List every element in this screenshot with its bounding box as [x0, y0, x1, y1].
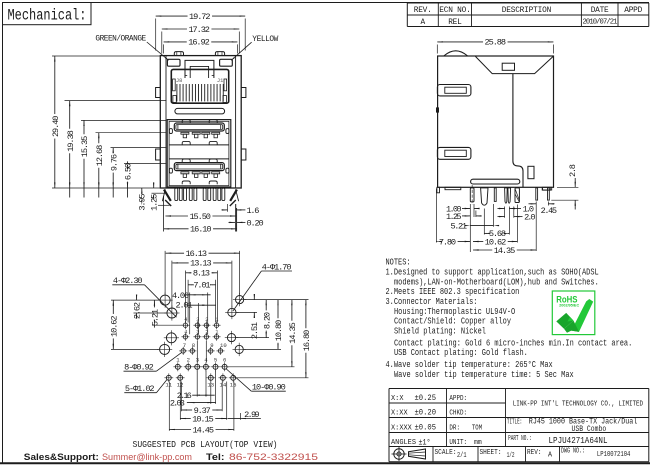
svg-text:14: 14	[220, 382, 227, 389]
svg-text:5: 5	[214, 356, 217, 363]
side view front step line	[513, 74, 523, 188]
svg-text:10: 10	[220, 342, 227, 349]
USB port 1 upper latch bumps	[182, 141, 190, 144]
revision table frame	[406, 3, 408, 27]
svg-text:1.Designed to support applicat: 1.Designed to support application,such a…	[386, 267, 599, 277]
front view body outline	[160, 56, 241, 188]
dimension 2.62	[136, 295, 138, 301]
svg-text:8-Φ0.92: 8-Φ0.92	[124, 362, 154, 372]
dimension 8.20	[265, 300, 267, 311]
PCB left extension lines	[111, 299, 160, 301]
svg-text:14.35: 14.35	[494, 246, 516, 256]
front view top mounting tab right	[215, 52, 224, 56]
svg-text:4.Wave solder tip temperature:: 4.Wave solder tip temperature: 265°C Max	[386, 360, 553, 370]
title block column lines	[446, 389, 448, 447]
svg-text:X:XXX: X:XXX	[391, 424, 412, 432]
revision table column lines	[437, 3, 439, 27]
svg-text:LP10072104: LP10072104	[597, 451, 631, 459]
svg-text:ANGLES: ANGLES	[391, 439, 417, 447]
svg-text:2: 2	[187, 356, 190, 363]
svg-text:Tel:: Tel:	[206, 452, 225, 463]
PCB hole 2.30 bottom-left	[160, 344, 170, 354]
svg-text:modems),LAN-on-Motherboard(LOM: modems),LAN-on-Motherboard(LOM),hub and …	[394, 277, 599, 287]
svg-text:J1: J1	[217, 78, 223, 84]
front view bottom contact pins	[175, 188, 178, 201]
svg-text:10.80: 10.80	[274, 320, 284, 342]
svg-text:12.68: 12.68	[95, 145, 105, 167]
svg-text:SHEET:: SHEET:	[480, 449, 502, 457]
USB port 1 upper contacts	[181, 132, 189, 134]
svg-text:Summer@link-pp.com: Summer@link-pp.com	[102, 452, 192, 463]
svg-text:4.06: 4.06	[172, 291, 189, 301]
dimension 16.13	[166, 252, 184, 254]
side view pins	[470, 188, 474, 202]
dimension 2.51	[253, 295, 255, 300]
svg-text:2.99: 2.99	[244, 410, 260, 420]
dimension 3.95	[158, 204, 170, 206]
svg-text:15.35: 15.35	[80, 136, 90, 158]
dimension 12.68	[98, 133, 100, 144]
PCB hole 1.70 inner-right-lower	[227, 334, 235, 342]
dimension 8.13	[186, 272, 192, 274]
svg-text:0.20: 0.20	[247, 218, 264, 228]
title block frame	[389, 388, 649, 390]
svg-text:1.6: 1.6	[247, 206, 260, 216]
USB port 2 lower latch bumps	[182, 181, 190, 184]
svg-text:TITLE:: TITLE:	[507, 418, 522, 426]
svg-text:2.Meets IEEE 802.3 specificati: 2.Meets IEEE 802.3 specification	[386, 287, 520, 297]
svg-text:86-752-3322915: 86-752-3322915	[229, 452, 318, 463]
RJ45 contact comb	[176, 84, 178, 101]
USB port 2 lower contacts	[181, 172, 189, 174]
svg-text:16.80: 16.80	[302, 330, 312, 352]
USB port 1 upper side clips	[169, 129, 172, 134]
side view bottom slot bar	[471, 179, 520, 184]
svg-text:PART NO.:: PART NO.:	[508, 435, 531, 443]
USB port 1 upper top tabs	[182, 120, 190, 123]
dimension 0.20	[229, 222, 235, 223]
title block bottom row columns	[432, 447, 434, 462]
svg-text:Mechanical:: Mechanical:	[8, 7, 87, 25]
side bottom extension lines	[469, 204, 471, 252]
svg-text:7: 7	[183, 342, 186, 349]
PCB RJ45 pin holes row 1	[183, 323, 187, 327]
svg-text:REL: REL	[448, 19, 462, 27]
dimension 19.38	[69, 101, 71, 129]
svg-text:17.32: 17.32	[188, 25, 210, 35]
dimension 25.88	[436, 45, 438, 54]
svg-text:REV:: REV:	[527, 449, 542, 457]
extension lines left of front view	[52, 55, 160, 57]
svg-text:13.13: 13.13	[190, 259, 212, 269]
svg-text:USB Combo: USB Combo	[572, 425, 607, 434]
svg-text:14.35: 14.35	[288, 322, 298, 344]
svg-text:3.Connector Materials:: 3.Connector Materials:	[386, 297, 478, 307]
svg-text:2.0: 2.0	[524, 213, 536, 223]
svg-text:APPD:: APPD:	[449, 395, 467, 403]
svg-text:LPJU4271A64NL: LPJU4271A64NL	[549, 435, 608, 446]
dimension 5.21	[153, 300, 155, 307]
side view latch window upper	[437, 85, 471, 96]
svg-text:6: 6	[223, 356, 226, 363]
PCB right extension lines	[244, 299, 308, 301]
svg-text:DATE: DATE	[591, 7, 609, 15]
svg-text:29.40: 29.40	[51, 116, 61, 138]
side view latch window lower	[437, 147, 471, 159]
USB divider lines	[169, 144, 229, 146]
front view top mounting tab left	[174, 52, 183, 56]
svg-text:10.62: 10.62	[109, 315, 119, 337]
LED window yellow	[220, 59, 233, 66]
PCB shield holes 7-10 row	[181, 349, 185, 353]
svg-text:25.88: 25.88	[485, 38, 507, 48]
page bottom rule	[0, 462, 650, 464]
svg-text:DWG NO.:: DWG NO.:	[561, 447, 585, 455]
svg-text:15: 15	[230, 382, 237, 389]
title box Mechanical	[3, 3, 92, 25]
PCB bottom extension lines	[196, 371, 198, 397]
dimension 5.21	[465, 225, 471, 226]
svg-text:7.01: 7.01	[193, 281, 210, 291]
dimension 14.35	[473, 249, 492, 251]
svg-text:2.51: 2.51	[250, 322, 260, 339]
svg-text:16.92: 16.92	[188, 38, 210, 48]
svg-text:Contact plating: Gold 6 micro-: Contact plating: Gold 6 micro-inches min…	[394, 338, 632, 348]
dimension 9.76	[112, 148, 114, 153]
svg-text:Shield plating: Nickel: Shield plating: Nickel	[394, 327, 486, 337]
dimension 16.80	[305, 300, 307, 329]
dimension 15.50	[165, 215, 188, 217]
side view edge mark	[436, 108, 438, 112]
RJ45 jack opening	[171, 69, 228, 103]
side view mid hole	[528, 166, 534, 178]
svg-text:2002/95/EC: 2002/95/EC	[559, 304, 580, 308]
svg-text:14.45: 14.45	[193, 425, 215, 435]
dimension 1.6	[222, 209, 228, 210]
svg-text:SUGGESTED PCB LAYOUT(TOP VIEW): SUGGESTED PCB LAYOUT(TOP VIEW)	[133, 439, 278, 450]
dimension 17.32	[161, 32, 163, 54]
svg-text:6.50: 6.50	[124, 163, 134, 180]
svg-text:1.25: 1.25	[446, 212, 462, 222]
side view body outline	[438, 56, 554, 187]
dimension 2.99	[222, 418, 228, 419]
svg-text:CHKD:: CHKD:	[449, 409, 467, 417]
side view top chamfer recess	[475, 56, 553, 73]
USB port 2 lower top tabs	[182, 159, 190, 162]
dimension 14.35 pcb	[291, 300, 293, 321]
svg-text:8.20: 8.20	[262, 312, 272, 329]
PCB USB pin holes 1-6 row	[175, 364, 180, 369]
PCB hole 2.30 inner-left-upper	[167, 308, 177, 318]
PCB RJ45 pin holes row 2	[183, 335, 187, 339]
PCB USB pin holes 11-15 row	[166, 375, 171, 380]
RJ45 bottom corner steps	[173, 96, 176, 103]
svg-text:±0.20: ±0.20	[415, 409, 437, 418]
svg-text:10.15: 10.15	[192, 414, 214, 424]
dimension 1.25	[152, 192, 166, 194]
svg-text:REV.: REV.	[414, 7, 432, 15]
third angle projection symbol	[394, 449, 404, 459]
svg-text:DR:: DR:	[449, 424, 460, 432]
svg-text:8.13: 8.13	[193, 269, 210, 279]
RJ45 key tab	[185, 60, 214, 78]
side view top hole	[502, 63, 514, 70]
dimension 5.68	[484, 232, 487, 234]
RJ45 inner side slots	[173, 79, 176, 91]
svg-text:UNIT:: UNIT:	[449, 439, 467, 447]
svg-text:Contact/Shield: Copper alloy: Contact/Shield: Copper alloy	[394, 317, 511, 327]
svg-text:16.13: 16.13	[186, 249, 208, 259]
dimension 10.80	[277, 300, 279, 319]
svg-text:Sales&Support:: Sales&Support:	[24, 452, 99, 463]
dimension 1.25	[465, 215, 471, 216]
svg-text:LINK-PP INT'L TECHNOLOGY CO.,: LINK-PP INT'L TECHNOLOGY CO., LIMITED	[513, 401, 644, 409]
dimension 1.0	[499, 208, 505, 209]
dimension 16.92	[163, 44, 165, 53]
side view bottom feet	[445, 187, 461, 189]
svg-text:GREEN/ORANGE: GREEN/ORANGE	[95, 36, 146, 44]
vent slot oval	[175, 108, 225, 114]
svg-text:A: A	[421, 19, 426, 27]
svg-text:9: 9	[210, 342, 213, 349]
dimension 2.45	[531, 203, 537, 204]
svg-text:APPD: APPD	[624, 7, 642, 15]
svg-text:Housing:Thermoplastic UL94V-O: Housing:Thermoplastic UL94V-O	[394, 307, 515, 317]
PCB hole 1.70 top-right	[236, 296, 244, 304]
svg-text:ECN NO.: ECN NO.	[439, 7, 471, 15]
dimension 29.40	[54, 56, 56, 114]
svg-text:mm: mm	[474, 439, 482, 447]
svg-text:2010/07/21: 2010/07/21	[583, 19, 618, 27]
svg-text:X:XX: X:XX	[391, 409, 408, 417]
svg-text:DESCRIPTION: DESCRIPTION	[502, 7, 552, 15]
dimension 10.62	[112, 300, 114, 314]
USB port 2 lower side clips	[169, 168, 172, 173]
svg-text:19.38: 19.38	[66, 130, 76, 152]
svg-text:7.80: 7.80	[439, 237, 456, 247]
svg-text:TOM: TOM	[472, 424, 482, 432]
page left border	[2, 3, 4, 464]
svg-text:X:X: X:X	[391, 395, 404, 403]
PCB hole 2.30 inner-left-lower	[166, 333, 176, 343]
dimension 2.8 vertical	[557, 186, 578, 188]
svg-text:9.76: 9.76	[109, 154, 119, 171]
svg-text:19.72: 19.72	[189, 12, 211, 22]
dimension 13.13	[172, 262, 188, 264]
USB block outline	[167, 120, 231, 187]
front bottom extension lines	[163, 196, 165, 232]
svg-text:2.8: 2.8	[568, 164, 578, 177]
PCB top extension lines	[164, 251, 166, 295]
svg-text:2.03: 2.03	[170, 398, 185, 408]
dimension 16.10	[164, 228, 189, 230]
svg-text:A: A	[548, 452, 553, 460]
svg-text:2.45: 2.45	[541, 206, 558, 216]
svg-text:±0.05: ±0.05	[415, 424, 437, 433]
USB port 2 lower shell opening	[174, 163, 224, 171]
dimension 7.80 and 10.62	[436, 241, 437, 243]
dimension 15.35	[83, 120, 85, 134]
svg-text:8: 8	[192, 342, 195, 349]
RoHS logo box	[552, 291, 595, 335]
svg-text:10-Φ0.90: 10-Φ0.90	[252, 382, 286, 392]
svg-text:SCALE:: SCALE:	[435, 449, 457, 457]
svg-text:Wave solder tip temperature ti: Wave solder tip temperature time: 5 Sec …	[394, 370, 574, 380]
dimension 14.45	[169, 429, 191, 431]
PCB hole 1.70 inner-right-upper	[228, 308, 236, 316]
page top border	[2, 2, 649, 4]
PCB hole 1.70 bottom-right	[235, 345, 243, 353]
front shield leg right	[236, 189, 239, 201]
dimension 9.37	[181, 409, 192, 411]
USB port 1 upper shell opening	[174, 123, 224, 131]
dimension 6.50	[127, 161, 129, 163]
svg-text:1/2: 1/2	[507, 452, 515, 460]
svg-text:YELLOW: YELLOW	[252, 36, 278, 44]
RoHS checkmark	[571, 299, 593, 332]
front view inner side folds	[165, 56, 167, 188]
svg-text:USB Contact plating: Gold flas: USB Contact plating: Gold flash.	[394, 348, 528, 358]
svg-text:1: 1	[215, 330, 218, 336]
svg-text:J8: J8	[176, 78, 182, 84]
svg-text:16.10: 16.10	[190, 225, 212, 235]
dimension 19.72	[155, 19, 157, 51]
svg-text:4: 4	[184, 330, 187, 336]
side view top latch arc	[444, 51, 467, 56]
LED window green/orange	[167, 59, 180, 66]
dimension 7.01	[188, 284, 192, 286]
PCB hole 2.30 top-left	[160, 295, 170, 305]
svg-text:15.50: 15.50	[189, 212, 211, 222]
front view side latch tabs	[156, 88, 161, 98]
svg-text:NOTES:: NOTES:	[386, 258, 411, 268]
dimension 1.00	[465, 208, 471, 209]
front shield leg left	[162, 189, 165, 201]
dimension 2.0	[499, 216, 505, 217]
svg-text:5.21: 5.21	[150, 309, 160, 326]
svg-text:2.62: 2.62	[132, 302, 142, 319]
svg-text:1.25: 1.25	[149, 194, 159, 211]
svg-text:2/1: 2/1	[457, 452, 467, 460]
svg-text:3.95: 3.95	[138, 193, 148, 210]
svg-text:5.21: 5.21	[451, 222, 468, 232]
svg-text:±0.25: ±0.25	[415, 394, 437, 403]
svg-text:±1°: ±1°	[419, 438, 431, 447]
dimension 10.15	[180, 418, 190, 420]
